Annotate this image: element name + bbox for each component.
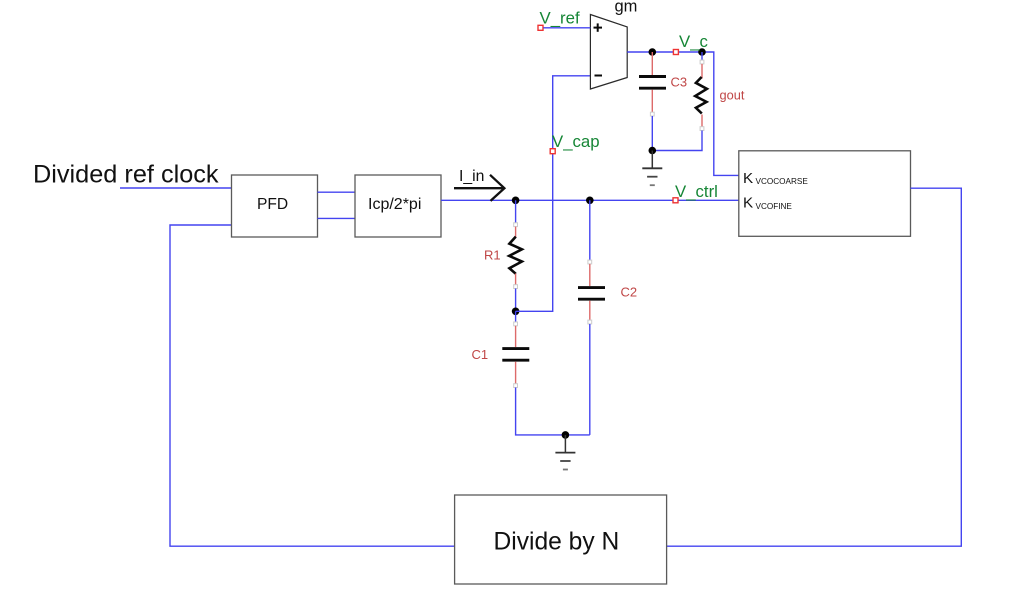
pin gout bottom <box>700 127 704 131</box>
resistor R1 <box>509 237 522 274</box>
ground symbol upper <box>642 151 662 186</box>
wire ref clock input <box>120 187 232 189</box>
pin stub gout top red <box>701 64 703 79</box>
svg-text:gout: gout <box>720 88 745 103</box>
pin stub C1 bottom red <box>515 362 517 384</box>
pin C2 bottom <box>588 320 592 324</box>
wire R1 bottom to node <box>515 289 517 312</box>
node junction C3-gout bottom <box>649 147 657 155</box>
node junction C3 top <box>649 48 657 56</box>
wire gm output to V_c rail <box>627 52 739 175</box>
op-amp gm <box>590 15 627 90</box>
wire V_cap sense <box>516 76 591 311</box>
wire C1 top stub <box>515 311 517 324</box>
svg-text:VCOFINE: VCOFINE <box>756 202 793 211</box>
capacitor C2 <box>578 288 605 300</box>
pin stub C2 bottom red <box>589 301 591 321</box>
pin R1 top <box>514 223 518 227</box>
pin C3 bottom <box>650 112 654 116</box>
svg-text:gm: gm <box>615 0 638 15</box>
pin stub C3 bottom red <box>651 90 653 113</box>
wire feedback to PFD <box>170 225 455 546</box>
wire VCO output <box>667 188 962 546</box>
pin V_cap red square <box>550 149 555 154</box>
wire C2 top stub <box>589 200 591 262</box>
svg-text:K: K <box>743 170 753 187</box>
svg-text:C2: C2 <box>621 285 638 300</box>
pin V_ctrl red square <box>673 198 678 203</box>
svg-text:Divided ref clock: Divided ref clock <box>33 161 219 189</box>
op-amp plus sign <box>594 23 603 31</box>
wire C3 bottom to junction <box>651 116 653 151</box>
svg-text:C1: C1 <box>472 347 489 362</box>
wire main V_ctrl rail <box>441 199 739 201</box>
svg-text:K: K <box>743 194 753 211</box>
svg-text:Divide by N: Divide by N <box>494 529 620 556</box>
capacitor C3 <box>639 77 666 89</box>
node junction C2 top <box>586 197 594 205</box>
arrow I_in <box>454 175 504 201</box>
wire R1 top stub <box>515 200 517 224</box>
svg-text:Icp/2*pi: Icp/2*pi <box>368 196 421 213</box>
pin stub R1 top red <box>515 227 517 238</box>
box Divide by N <box>455 495 667 584</box>
pin stub gout bottom red <box>701 115 703 128</box>
svg-text:V_ctrl: V_ctrl <box>675 182 718 201</box>
box Icp/2*pi <box>355 175 441 237</box>
wire C2 bottom to ground rail <box>589 324 591 435</box>
wire V_ref to plus input <box>543 27 590 29</box>
resistor gout <box>695 77 707 114</box>
wire PFD to Icp lower <box>318 217 356 219</box>
svg-text:V_c: V_c <box>679 32 708 51</box>
pin V_c red square <box>673 50 678 55</box>
pin R1 bottom <box>514 285 518 289</box>
wire C1 bottom to ground rail <box>516 388 590 435</box>
node junction R1-C1 <box>512 308 520 316</box>
svg-text:I_in: I_in <box>459 168 484 185</box>
op-amp minus sign <box>595 75 603 77</box>
wire gout top stub <box>701 52 703 62</box>
pin C1 bottom <box>514 384 518 388</box>
capacitor C1 <box>502 349 529 361</box>
svg-text:C3: C3 <box>671 75 688 90</box>
node junction R1 top <box>512 197 520 205</box>
pin gout top <box>700 60 704 64</box>
pin V_ref red square <box>538 25 543 30</box>
node junction gout top <box>698 48 706 56</box>
node junction ground rail <box>562 431 570 439</box>
box KVCO <box>739 151 911 237</box>
ground symbol lower <box>555 435 575 470</box>
svg-text:V_ref: V_ref <box>540 8 580 27</box>
pin stub C1 top red <box>515 326 517 347</box>
svg-text:V_cap: V_cap <box>552 132 600 151</box>
wire gout bottom to junction <box>652 131 702 151</box>
pin C1 top <box>514 322 518 326</box>
svg-text:VCOCOARSE: VCOCOARSE <box>756 177 809 186</box>
pin stub C2 top red <box>589 264 591 286</box>
box PFD <box>232 175 318 237</box>
svg-text:PFD: PFD <box>257 196 288 213</box>
pin stub C3 top red <box>651 52 653 75</box>
pin C2 top <box>588 260 592 264</box>
pin stub R1 bottom red <box>515 274 517 286</box>
svg-text:R1: R1 <box>484 248 501 263</box>
wire PFD to Icp upper <box>318 191 356 193</box>
